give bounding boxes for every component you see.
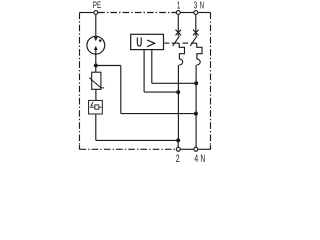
svg-text:PE: PE [93,0,101,10]
gas discharge tube box [89,100,103,114]
spark gap icon left lead [90,106,95,108]
svg-text:4: 4 [194,152,198,164]
node B junction dot (on phase branch) [176,138,180,142]
spark gap icon series gap rectangle [95,105,99,109]
wire: N branch lower vertical through nodes E and D to terminal 4 N [195,65,197,147]
wire: bottom run to node B [96,139,178,141]
wire: varistor to gas discharge tube [95,89,97,100]
spark gap lower electrode arrow (upward) [94,46,98,50]
wire: U1 left leg down [143,50,145,93]
wire: node B to terminal 2 [177,140,179,147]
wire: gas discharge tube down [95,114,97,140]
device enclosure dash-dot boundary, bottom edge [198,148,210,150]
svg-text:3: 3 [194,0,198,11]
spark gap icon lightning arrow [92,102,93,104]
label > inside voltage monitor [147,40,155,47]
wire: U1 left leg to node C [144,91,178,93]
terminal 1 (open circle) [176,11,180,15]
wire: spark gap to node A [95,50,97,66]
wire: vertical run down at x=120.8 [120,66,122,114]
wire: U1 right leg down [151,50,153,84]
switch S1 fixed contact bar [172,42,180,44]
wire: terminal 2 to terminal 4 N along bottom edge [180,148,193,150]
spark gap F1 (triggered spark gap, circle) [87,36,105,54]
terminal 3 N (open circle) [194,11,198,15]
wire: PE terminal down to spark gap [95,15,97,38]
label U inside voltage monitor (condensed U glyph as path) [137,37,141,46]
voltage monitor mechanical linkage dashes [164,42,169,44]
node C junction dot (on phase branch) [176,90,180,94]
varistor diagonal stroke with foot [89,78,104,88]
disconnector indicator X (phase branch) [176,30,182,36]
terminal PE (open circle) [94,11,98,15]
wire: node A to varistor [95,66,97,73]
linkage dash between switches [183,42,189,44]
voltage monitor U1 box [131,34,164,49]
svg-text:N: N [200,152,205,164]
svg-text:2: 2 [176,152,180,164]
switch S1 blade [173,36,180,46]
switch S2 blade [190,36,197,46]
thermal disconnect device step and bump (N branch) [197,43,202,65]
wire: horizontal run to node D on N branch (crosses phase branch) [121,113,196,115]
disconnector indicator X (N branch) [193,30,199,36]
thermal disconnect device step and bump (phase branch) [179,43,184,65]
spark gap trigger dot [99,39,102,42]
node D junction dot (on N branch) [194,112,198,116]
wire: terminal 3 N down into N branch [195,15,197,36]
spark gap upper electrode arrow (downward) [94,37,98,41]
wire: terminal 1 down into phase branch [177,15,179,36]
wire: terminal 1 to terminal 3 N along top edge [180,12,193,14]
device enclosure dash-dot boundary, left edge [79,13,81,150]
node E junction dot (on N branch) [194,81,198,85]
terminal 2 (open circle) [176,147,180,151]
switch S2 fixed contact bar [191,42,197,44]
device enclosure dash-dot boundary, right edge [210,13,212,150]
wire: node A to the right [96,65,121,67]
node A junction dot (below spark gap) [94,64,98,68]
svg-text:N: N [200,0,204,11]
terminal 4 N (open circle) [194,147,198,151]
spark gap icon right lead [99,106,102,108]
wire: U1 right leg to node E (crosses phase branch) [152,82,196,84]
device enclosure dash-dot boundary, top edge [80,12,94,14]
svg-text:1: 1 [177,0,181,11]
varistor RV1 (rectangle) [92,72,101,89]
wire: phase branch lower vertical to node B [177,65,179,140]
